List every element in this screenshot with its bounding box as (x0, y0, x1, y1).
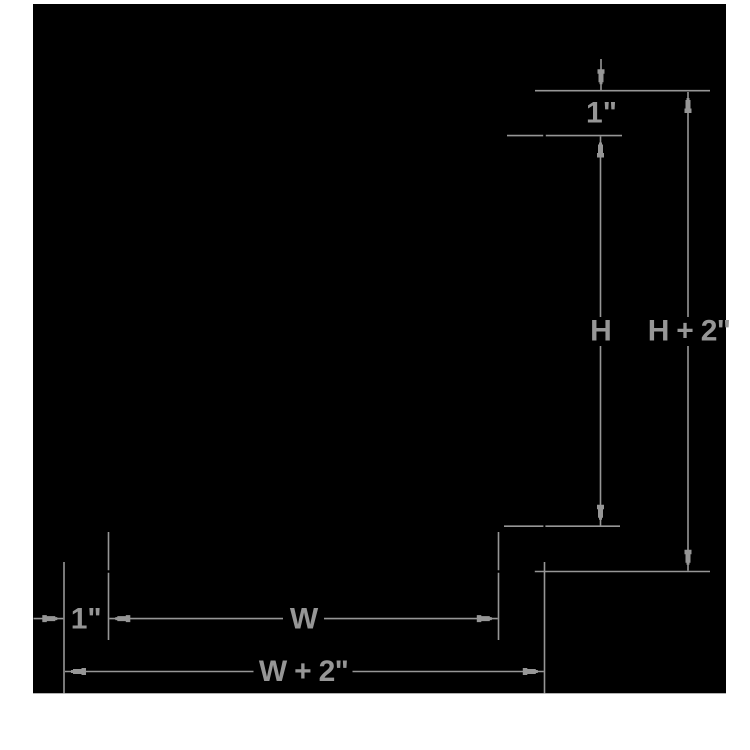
svg-text:W + 2": W + 2" (259, 655, 348, 688)
svg-text:1": 1" (586, 96, 617, 129)
svg-text:W: W (290, 603, 319, 636)
svg-text:H + 2": H + 2" (648, 315, 731, 348)
svg-text:H: H (590, 315, 612, 348)
svg-text:1": 1" (71, 603, 102, 636)
